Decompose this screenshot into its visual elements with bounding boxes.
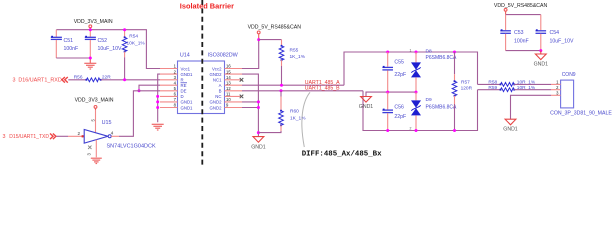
svg-text:3: 3	[13, 78, 16, 84]
svg-text:CON_3P_3D81_90_MALE: CON_3P_3D81_90_MALE	[550, 110, 612, 116]
connector CON9 body	[561, 80, 574, 108]
svg-text:A: A	[219, 83, 222, 88]
pin 8 GND1	[160, 107, 178, 109]
svg-text:GND2: GND2	[210, 105, 223, 110]
wire pin2 GND1 drop	[158, 74, 160, 122]
svg-text:NC1: NC1	[213, 78, 222, 83]
U15 pin 2 input stub	[68, 135, 84, 137]
junction 5V / R55 tap	[257, 38, 260, 41]
svg-text:2: 2	[78, 131, 81, 136]
svg-text:10K_1%: 10K_1%	[127, 41, 146, 47]
svg-text:C55: C55	[394, 60, 404, 66]
junction D9 bottom	[415, 129, 418, 132]
wire R58 to CON9 pin1	[514, 83, 551, 85]
CON9 pin 1	[551, 83, 561, 85]
svg-text:GND1: GND1	[181, 72, 194, 77]
wire C53/C54 bottom rail	[506, 50, 541, 52]
svg-text:2: 2	[410, 127, 412, 131]
pin 16 Vcc2	[225, 68, 243, 70]
pin 6 D	[160, 95, 178, 97]
svg-text:R60: R60	[290, 109, 299, 115]
junction R54 top	[123, 28, 126, 31]
svg-text:3: 3	[3, 134, 6, 140]
svg-text:DE: DE	[181, 89, 187, 94]
op-amp U15 triangle (inverter)	[84, 130, 108, 144]
svg-text:D15/UART1_TXD: D15/UART1_TXD	[9, 134, 49, 140]
svg-text:16: 16	[226, 64, 231, 69]
junction RE/DE tie	[138, 89, 141, 92]
junction pin7 GND1	[156, 100, 159, 103]
power port VDD_5V_RS485&CAN (right instance)	[494, 3, 548, 15]
junction D8 top	[415, 51, 418, 54]
svg-text:13: 13	[226, 80, 231, 85]
diff pair leader line	[302, 92, 310, 147]
U15 pin 4 output stub	[111, 135, 119, 137]
U15 pin 3 GND stub	[95, 140, 97, 158]
svg-text:GND1: GND1	[534, 62, 549, 68]
svg-text:15: 15	[226, 69, 231, 74]
svg-text:GND1: GND1	[181, 100, 194, 105]
wire Vcc2 to 5V	[242, 40, 259, 69]
pin 2 GND1	[160, 73, 178, 75]
pin 3 R	[160, 79, 178, 81]
resistor R60	[258, 91, 306, 133]
wire RXD to pin 3	[101, 79, 160, 81]
junction R54/RXD	[123, 78, 126, 81]
svg-text:1: 1	[410, 49, 412, 53]
svg-text:C51: C51	[64, 38, 74, 44]
isolation barrier dashed line	[201, 0, 203, 166]
svg-text:100nF: 100nF	[514, 39, 529, 45]
wire CON9 pin3 to GND	[511, 95, 552, 119]
junction C52 bottom / gnd	[89, 57, 92, 60]
wire pin9 to GND	[242, 107, 258, 109]
svg-text:GND2: GND2	[210, 100, 223, 105]
resistor R58	[488, 80, 536, 87]
junction R57 bottom	[453, 129, 456, 132]
wire B rail (protection)	[363, 90, 478, 131]
svg-text:RE: RE	[181, 83, 187, 88]
svg-text:R55: R55	[290, 47, 299, 53]
pin 12 B	[225, 90, 243, 92]
wire A rail (protection)	[344, 52, 478, 85]
pin 10 GND2	[225, 101, 243, 103]
junction pin10	[257, 100, 260, 103]
svg-text:11: 11	[226, 92, 231, 97]
svg-text:D16/UART1_RXD: D16/UART1_RXD	[18, 78, 61, 84]
TVS diode D9	[410, 92, 458, 130]
wire pin10 to GND	[242, 101, 258, 103]
capacitor C53	[500, 15, 528, 51]
pin 1 Vcc1	[160, 68, 178, 70]
svg-text:10: 10	[226, 97, 231, 102]
wire pin5 DE to U15 output	[119, 91, 160, 137]
svg-text:10uF_10V: 10uF_10V	[98, 46, 122, 52]
svg-text:GND1: GND1	[251, 145, 266, 151]
capacitor C52	[85, 30, 122, 58]
junction C56 bottom	[386, 129, 389, 132]
svg-text:GND1: GND1	[359, 104, 374, 110]
wire B to R59	[478, 89, 501, 91]
svg-text:SN74LVC1G04DCK: SN74LVC1G04DCK	[107, 143, 156, 149]
svg-text:DIFF:485_Ax/485_Bx: DIFF:485_Ax/485_Bx	[302, 151, 382, 159]
svg-text:22pF: 22pF	[394, 114, 406, 120]
pin 15 GND2	[225, 73, 243, 75]
wire A to R58	[478, 83, 501, 85]
ground GND1 (triangle) for CON9	[503, 119, 518, 132]
svg-text:VDD_5V_RS485&CAN: VDD_5V_RS485&CAN	[494, 3, 548, 9]
wire RXD	[68, 79, 86, 81]
capacitor C55	[382, 52, 406, 92]
IC U14 ISO3082DW body	[178, 61, 225, 114]
svg-text:R54: R54	[129, 34, 138, 40]
svg-text:R56: R56	[74, 75, 83, 81]
wire GND2 drop (right of chip)	[242, 74, 258, 136]
junction R55/A	[280, 84, 283, 87]
junction C55 top	[386, 51, 389, 54]
ground (bar style) under C51/C52	[84, 58, 96, 69]
svg-text:22pF: 22pF	[394, 72, 406, 78]
power port VDD_5V_RS485&CAN (left instance)	[248, 25, 302, 40]
svg-text:4: 4	[111, 131, 114, 136]
junction C54 bottom	[539, 49, 542, 52]
junction C55/C56 mid	[386, 91, 389, 94]
svg-text:UART1_485_B: UART1_485_B	[305, 86, 340, 92]
ground (bar style) under U14	[152, 124, 164, 130]
U15 output bubble	[108, 135, 111, 138]
svg-text:100nF: 100nF	[64, 46, 79, 52]
svg-text:D8: D8	[426, 49, 432, 55]
CON9 pin 3	[551, 94, 561, 96]
junction R57 top	[453, 51, 456, 54]
wire 3V3 rail	[56, 30, 160, 69]
svg-text:120R: 120R	[461, 85, 473, 91]
svg-text:R59: R59	[488, 85, 497, 91]
svg-text:U15: U15	[102, 120, 112, 126]
svg-text:NC: NC	[215, 94, 221, 99]
svg-text:CON9: CON9	[562, 72, 576, 78]
junction 3V3 power stub	[89, 28, 92, 31]
svg-text:10R_1%: 10R_1%	[517, 85, 536, 91]
wire R59 to CON9 pin2	[514, 89, 551, 91]
wire R55 tap	[259, 39, 282, 41]
pin 9 GND2	[225, 107, 243, 109]
svg-text:GND1: GND1	[181, 105, 194, 110]
capacitor C56	[382, 92, 406, 130]
svg-text:D9: D9	[426, 97, 432, 103]
svg-text:14: 14	[226, 75, 231, 80]
svg-text:Isolated Barrier: Isolated Barrier	[180, 2, 234, 11]
power port VDD_3V3_MAIN (above U15)	[75, 97, 114, 110]
svg-text:Vcc1: Vcc1	[181, 66, 191, 71]
wire pin4 RE jog	[139, 85, 160, 91]
capacitor C54	[536, 15, 574, 51]
junction R60/B	[280, 89, 283, 92]
junction D8/D9 mid	[415, 91, 418, 94]
pin 5 DE	[160, 90, 178, 92]
svg-text:VDD_3V3_MAIN: VDD_3V3_MAIN	[74, 19, 113, 25]
inverter U15 pin 5 VCC stub	[95, 110, 97, 133]
CON9 pin 2	[551, 89, 561, 91]
pin 7 GND1	[160, 101, 178, 103]
svg-text:10uF_10V: 10uF_10V	[550, 39, 574, 45]
svg-text:D: D	[181, 94, 184, 99]
svg-text:GND2: GND2	[210, 72, 223, 77]
svg-text:P6SMB6.8CA: P6SMB6.8CA	[426, 105, 458, 111]
svg-text:P6SMB6.8CA: P6SMB6.8CA	[426, 55, 458, 61]
capacitor C51	[51, 30, 78, 58]
wire cap bottom rail	[56, 57, 90, 59]
svg-text:GND1: GND1	[503, 127, 518, 133]
junction pin8 GND1	[156, 106, 159, 109]
svg-text:1K_1%: 1K_1%	[290, 54, 306, 60]
wire TXD	[57, 135, 69, 137]
svg-text:C54: C54	[550, 30, 560, 36]
svg-text:R58: R58	[488, 80, 497, 86]
svg-text:12: 12	[226, 86, 231, 91]
svg-text:1K_1%: 1K_1%	[290, 115, 306, 121]
port D15/UART1_TXD	[3, 134, 56, 141]
power port VDD_3V3_MAIN (top-left)	[74, 19, 113, 30]
resistor R57	[452, 52, 472, 131]
svg-text:C53: C53	[514, 30, 524, 36]
resistor R55	[279, 40, 306, 86]
svg-text:R57: R57	[461, 79, 470, 85]
junction pin6 D to GND	[156, 95, 159, 98]
svg-text:R: R	[181, 78, 184, 83]
svg-text:VDD_5V_RS485&CAN: VDD_5V_RS485&CAN	[248, 25, 302, 31]
TVS diode D8	[410, 49, 458, 93]
wire mid GND rail	[366, 92, 416, 96]
ground GND1 (triangle) top right	[534, 51, 549, 68]
junction R60 return	[257, 131, 260, 134]
ground GND1 (triangle) in protection box	[359, 97, 374, 111]
no-connect x mark on U15	[88, 146, 91, 149]
pin 4 RE	[160, 84, 178, 86]
svg-text:C52: C52	[98, 38, 108, 44]
pin 11 NC (no connect)	[225, 95, 243, 97]
resistor R54	[122, 30, 145, 80]
ground (bar style) under U15	[91, 158, 102, 163]
svg-text:Vcc2: Vcc2	[212, 66, 222, 71]
ground GND1 (triangle) below chip right	[251, 137, 266, 151]
svg-text:B: B	[219, 89, 222, 94]
svg-text:ISO3082DW: ISO3082DW	[208, 52, 239, 58]
resistor R56	[74, 75, 112, 82]
svg-text:C56: C56	[394, 105, 404, 111]
wire B net	[242, 90, 363, 92]
svg-text:VDD_3V3_MAIN: VDD_3V3_MAIN	[75, 97, 114, 103]
resistor R59	[488, 85, 536, 91]
port D16/UART1_RXD	[13, 77, 68, 84]
svg-text:U14: U14	[180, 52, 190, 58]
wire A net	[242, 84, 344, 86]
wire 5V rail (right)	[506, 14, 541, 16]
pin 13 A	[225, 84, 243, 86]
pin 14 NC1 (no connect)	[225, 79, 243, 81]
junction pin9	[257, 106, 260, 109]
